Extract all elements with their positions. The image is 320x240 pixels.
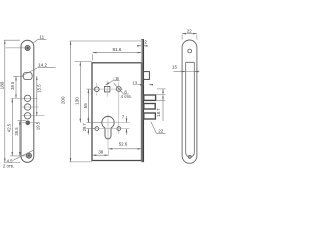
svg-text:81.6: 81.6	[113, 47, 122, 52]
right dim line 15.5 chain	[36, 76, 38, 116]
ext line bottom screw	[10, 155, 26, 157]
side plate outline	[182, 40, 197, 163]
dim 180 ext top	[4, 39, 20, 41]
small filled hole	[26, 121, 31, 126]
deadbolt plate 1	[144, 95, 156, 100]
svg-text:15: 15	[172, 65, 177, 70]
euro cylinder cutout	[102, 116, 114, 139]
follower square	[104, 86, 110, 92]
dim 55	[87, 89, 89, 123]
row centerline	[94, 88, 123, 90]
label square8	[113, 80, 120, 82]
dim 52.6	[108, 148, 141, 150]
svg-text:2: 2	[144, 40, 147, 45]
bottom screw hole (hatched)	[26, 153, 31, 158]
faceplate bar	[140, 39, 142, 162]
svg-text:15.5: 15.5	[36, 84, 41, 93]
hole row circle 3	[24, 113, 30, 119]
deadbolt plate 2	[144, 104, 155, 110]
svg-text:18.7: 18.7	[156, 108, 161, 117]
latch obround hole	[23, 72, 32, 79]
dim 180 line	[4, 40, 6, 162]
euro centerlines	[107, 115, 109, 149]
svg-text:38: 38	[98, 149, 103, 154]
dim 29.7	[87, 116, 89, 122]
dim 180 ext bottom	[4, 161, 20, 163]
svg-text:200: 200	[61, 96, 66, 104]
svg-text:38.5: 38.5	[10, 81, 15, 90]
dim 22	[182, 33, 197, 35]
dim 7 (euro to screw)	[126, 116, 128, 123]
svg-text:52.6: 52.6	[119, 142, 128, 147]
dim line 35.5	[19, 121, 21, 156]
ext line filled hole	[18, 120, 27, 122]
dim 15	[174, 71, 186, 73]
side bottom screw hole	[188, 155, 191, 158]
svg-text:2 отв.: 2 отв.	[3, 164, 14, 169]
side top screw hole	[188, 49, 192, 53]
svg-text:7: 7	[122, 114, 125, 119]
svg-text:14.2: 14.2	[38, 63, 47, 68]
dim 18.7 (deadbolt)	[157, 94, 166, 96]
dim 130	[79, 62, 81, 123]
dim 200	[70, 41, 72, 162]
top screw hole (hatched)	[25, 45, 30, 50]
label 11 leader	[38, 39, 47, 41]
latch bolt	[143, 72, 149, 80]
screw post right	[116, 87, 121, 92]
hole center ticks	[22, 115, 45, 117]
svg-text:29.7: 29.7	[82, 123, 87, 132]
dim 38	[92, 154, 108, 156]
svg-text:22: 22	[158, 128, 163, 133]
svg-text:□8: □8	[114, 76, 120, 81]
svg-text:35.5: 35.5	[14, 127, 19, 136]
label 8 / 4 otv leader	[114, 83, 123, 93]
svg-text:130: 130	[74, 97, 79, 105]
svg-text:42.5: 42.5	[7, 123, 12, 132]
svg-text:13: 13	[132, 80, 137, 85]
svg-text:55: 55	[83, 103, 88, 109]
ext line top hole	[6, 47, 25, 49]
lock case outline	[92, 63, 142, 161]
screws centerline	[93, 128, 130, 130]
case side outline	[186, 62, 195, 157]
cyl screw left	[95, 127, 99, 131]
deadbolt plate 3	[144, 113, 156, 119]
faceplate outline	[21, 40, 34, 162]
dim line 42.5	[11, 98, 13, 156]
svg-text:180: 180	[0, 81, 4, 89]
dim line 38.5	[15, 76, 17, 98]
dim 81.6	[93, 52, 142, 54]
svg-text:4 отв.: 4 отв.	[121, 94, 132, 99]
hole row circle 2	[24, 104, 30, 110]
hole row circle 1	[24, 95, 30, 101]
label 14.2 leader	[38, 67, 56, 69]
svg-text:11: 11	[39, 35, 44, 40]
screw post left	[95, 87, 100, 92]
svg-text:22: 22	[187, 28, 192, 33]
leader for 4.5 2otv	[13, 150, 34, 160]
cyl screw right	[117, 127, 121, 131]
